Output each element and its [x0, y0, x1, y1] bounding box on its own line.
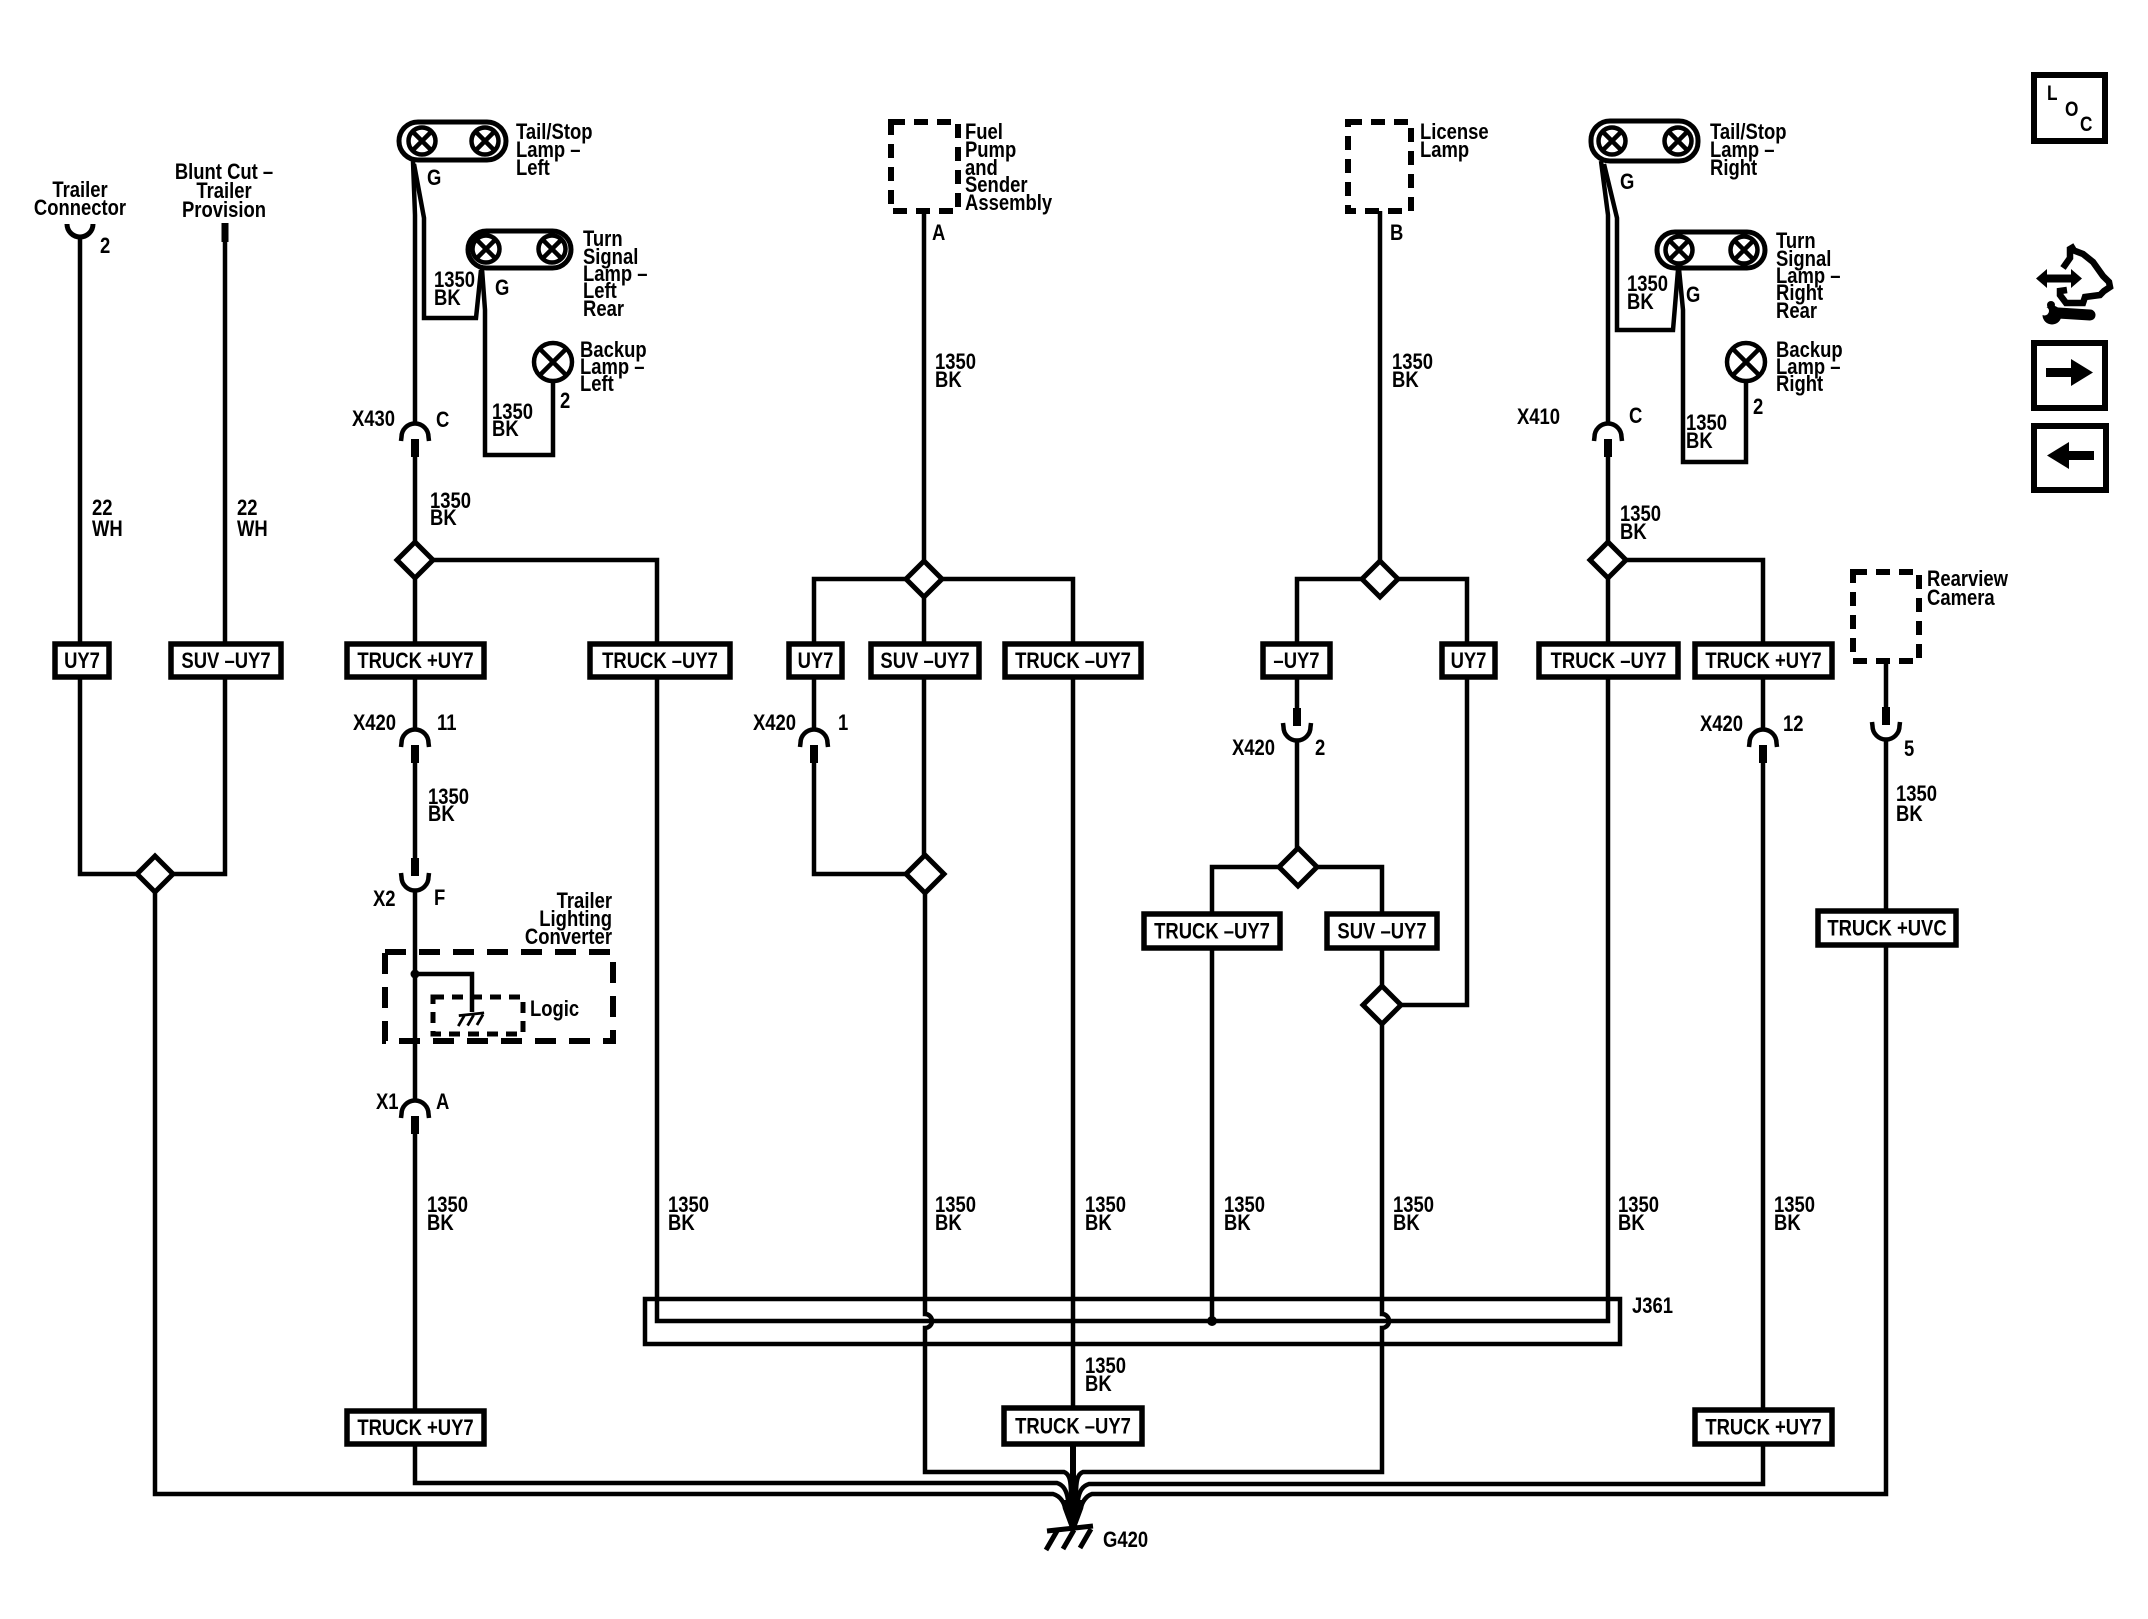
svg-text:12: 12	[1783, 711, 1804, 736]
svg-text:G420: G420	[1103, 1527, 1148, 1552]
svg-text:BK: BK	[1620, 519, 1647, 544]
svg-text:–UY7: –UY7	[1273, 648, 1319, 673]
svg-text:X1: X1	[376, 1089, 399, 1114]
svg-text:X420: X420	[1700, 711, 1743, 736]
svg-text:BK: BK	[1686, 428, 1713, 453]
svg-text:TRUCK –UY7: TRUCK –UY7	[602, 648, 718, 673]
svg-text:WH: WH	[92, 516, 123, 541]
svg-text:TRUCK +UY7: TRUCK +UY7	[1705, 648, 1821, 673]
svg-text:G: G	[427, 165, 441, 190]
svg-text:2: 2	[1315, 735, 1325, 760]
svg-text:Lamp: Lamp	[1420, 137, 1469, 162]
svg-text:Right: Right	[1776, 371, 1823, 396]
svg-text:X410: X410	[1517, 404, 1560, 429]
svg-text:BK: BK	[1224, 1210, 1251, 1235]
svg-text:BK: BK	[1085, 1210, 1112, 1235]
svg-text:2: 2	[100, 233, 110, 258]
svg-text:C: C	[1629, 403, 1642, 428]
svg-text:BK: BK	[492, 416, 519, 441]
svg-text:BK: BK	[1618, 1210, 1645, 1235]
svg-text:X430: X430	[352, 406, 395, 431]
svg-text:BK: BK	[427, 1210, 454, 1235]
svg-text:Left: Left	[516, 155, 550, 180]
svg-text:WH: WH	[237, 516, 268, 541]
svg-text:C: C	[436, 407, 449, 432]
svg-text:UY7: UY7	[1451, 648, 1487, 673]
svg-text:BK: BK	[430, 505, 457, 530]
svg-text:BK: BK	[428, 801, 455, 826]
svg-text:1: 1	[838, 710, 848, 735]
svg-text:X420: X420	[1232, 735, 1275, 760]
svg-text:G: G	[1686, 282, 1700, 307]
svg-text:UY7: UY7	[64, 648, 100, 673]
svg-text:BK: BK	[434, 285, 461, 310]
svg-text:TRUCK –UY7: TRUCK –UY7	[1551, 648, 1667, 673]
svg-text:Right: Right	[1710, 155, 1757, 180]
svg-text:Connector: Connector	[34, 195, 126, 220]
svg-text:X420: X420	[353, 710, 396, 735]
svg-text:BK: BK	[1393, 1210, 1420, 1235]
svg-text:O: O	[2065, 99, 2078, 122]
svg-text:BK: BK	[935, 367, 962, 392]
svg-text:Assembly: Assembly	[965, 190, 1053, 215]
svg-text:G: G	[1620, 169, 1634, 194]
svg-text:2: 2	[560, 388, 570, 413]
svg-text:A: A	[932, 220, 945, 245]
svg-text:BK: BK	[1392, 367, 1419, 392]
svg-text:BK: BK	[1627, 289, 1654, 314]
svg-text:Left: Left	[580, 371, 614, 396]
svg-text:Logic: Logic	[530, 996, 579, 1021]
svg-text:TRUCK +UVC: TRUCK +UVC	[1827, 916, 1946, 941]
svg-text:BK: BK	[1085, 1371, 1112, 1396]
svg-text:G: G	[495, 275, 509, 300]
svg-text:F: F	[434, 885, 445, 910]
svg-text:Rear: Rear	[583, 296, 624, 321]
svg-text:L: L	[2047, 83, 2058, 106]
svg-text:11: 11	[437, 710, 457, 735]
svg-text:TRUCK –UY7: TRUCK –UY7	[1015, 1414, 1131, 1439]
svg-text:TRUCK +UY7: TRUCK +UY7	[357, 1415, 473, 1440]
svg-text:UY7: UY7	[798, 648, 834, 673]
svg-text:BK: BK	[1896, 801, 1923, 826]
svg-text:C: C	[2080, 114, 2093, 137]
svg-text:SUV –UY7: SUV –UY7	[1337, 919, 1426, 944]
svg-text:TRUCK –UY7: TRUCK –UY7	[1015, 648, 1131, 673]
svg-text:TRUCK +UY7: TRUCK +UY7	[357, 648, 473, 673]
svg-text:J361: J361	[1632, 1293, 1673, 1318]
svg-text:X420: X420	[753, 710, 796, 735]
svg-text:Converter: Converter	[525, 924, 612, 949]
svg-text:BK: BK	[1774, 1210, 1801, 1235]
svg-text:5: 5	[1904, 736, 1914, 761]
svg-text:X2: X2	[373, 886, 396, 911]
svg-text:B: B	[1390, 220, 1403, 245]
svg-text:TRUCK –UY7: TRUCK –UY7	[1154, 919, 1270, 944]
svg-text:BK: BK	[935, 1210, 962, 1235]
svg-text:SUV –UY7: SUV –UY7	[880, 648, 969, 673]
svg-text:BK: BK	[668, 1210, 695, 1235]
svg-text:Rear: Rear	[1776, 298, 1817, 323]
svg-text:2: 2	[1753, 394, 1763, 419]
svg-text:TRUCK +UY7: TRUCK +UY7	[1705, 1415, 1821, 1440]
svg-text:A: A	[436, 1089, 449, 1114]
svg-text:SUV –UY7: SUV –UY7	[181, 648, 270, 673]
svg-text:Provision: Provision	[182, 197, 266, 222]
svg-text:Camera: Camera	[1927, 585, 1995, 610]
